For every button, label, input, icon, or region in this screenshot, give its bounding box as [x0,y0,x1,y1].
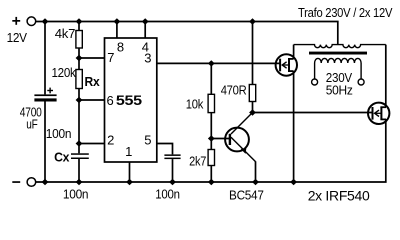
wire pin6 [79,99,105,101]
wire bottom ground rail [36,119,386,182]
capacitor Cx [71,144,89,183]
terminal secondary right [358,79,364,85]
svg-text:5: 5 [144,132,151,147]
label 4700 uF [20,105,42,132]
wire top supply rail [36,22,338,45]
svg-text:4k7: 4k7 [55,26,75,41]
wire pin7 [79,57,105,59]
wire M1 drain [293,45,295,59]
wire base [211,138,229,140]
resistor Rx 120k [76,58,82,100]
node collector junction [249,109,256,115]
IC U1 555 timer [105,38,157,162]
wire pin5 lead [157,144,173,155]
svg-text:BC547: BC547 [229,188,264,203]
transformer T1 secondary winding [315,58,362,78]
svg-text:1: 1 [125,144,132,159]
terminal secondary left [312,79,318,85]
svg-text:12V: 12V [7,30,28,45]
node ground-M1 junction [290,179,297,185]
svg-text:2x IRF540: 2x IRF540 [308,187,370,203]
node ground-cap1 junction [42,179,49,185]
svg-text:2: 2 [107,132,114,147]
svg-text:Trafo 230V / 2x 12V: Trafo 230V / 2x 12V [298,5,393,20]
terminal minus [12,178,35,187]
svg-text:2k7: 2k7 [189,154,206,169]
svg-text:555: 555 [116,92,142,108]
svg-text:8: 8 [117,39,124,54]
svg-text:120k: 120k [52,65,77,80]
resistor R1 4k7 [76,22,82,59]
resistor R2 10k [208,63,214,138]
wire emitter to ground [255,161,257,182]
svg-text:100n: 100n [155,187,179,202]
capacitor C2 100n (pin5) [164,154,180,182]
wire pin6-to-pin2 column [78,100,80,144]
svg-text:50Hz: 50Hz [326,83,353,98]
transistor Q1 BC547 [225,128,255,162]
transformer T1 primary winding [294,45,386,48]
node ground-emitter junction [252,179,259,185]
svg-text:6: 6 [107,93,114,108]
node supply-4k7 junction [76,18,83,24]
node ground-C2 junction [169,179,176,185]
node supply-pin8 junction [114,18,121,24]
transformer core [309,52,367,55]
node 4k7-Rx-pin7 junction [76,55,83,61]
node base junction [208,135,215,141]
terminal +12V [7,17,36,45]
svg-text:Rx: Rx [85,74,101,89]
capacitor C1 4700uF electrolytic [34,88,56,102]
svg-text:3: 3 [144,50,151,65]
transistor M1 IRF540 [276,54,297,75]
node supply-470R junction [249,18,256,24]
pin 4 stub [144,22,146,39]
svg-text:uF: uF [26,116,38,131]
svg-text:10k: 10k [186,97,204,112]
wire collector node to M2 gate [253,112,373,114]
svg-text:470R: 470R [221,83,247,98]
wire pin2 [79,143,105,145]
resistor R4 470R [249,22,255,113]
transistor M2 IRF540 [368,103,389,124]
node ground-pin1 junction [126,179,133,185]
svg-text:7: 7 [107,50,114,65]
wire pin3 output to M1 gate [157,62,280,64]
wire pin1 to ground [129,162,131,182]
node ground-2k7 junction [208,179,215,185]
node pin2-Cx junction [76,140,83,146]
resistor R3 2k7 [208,139,214,183]
node ground-Cx junction [76,179,83,185]
wire 4700uF bottom lead [44,102,46,183]
wire M1 source to ground [293,71,295,182]
wire M2 drain [385,45,387,108]
node supply-cap junction [42,18,49,24]
wire 4700uF top lead [44,22,46,95]
node supply-pin4 junction [142,18,149,24]
svg-text:100n: 100n [46,126,71,141]
node pin3-10k junction [208,60,215,66]
node Rx-pin6 junction [76,97,83,103]
wire collector diagonal [231,113,253,135]
svg-text:100n: 100n [63,187,88,202]
pin 8 stub [116,22,118,39]
svg-text:Cx: Cx [54,150,70,165]
